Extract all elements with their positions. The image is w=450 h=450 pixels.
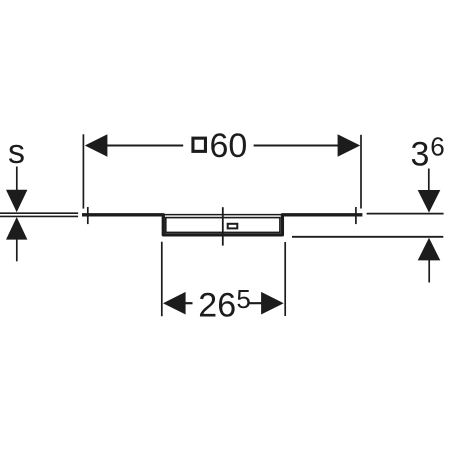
dimension 26.5 left arrow — [163, 292, 186, 315]
dimension 60 right arrow — [338, 134, 361, 157]
square symbol of dimension 60 — [193, 138, 206, 151]
s dimension lower leader line — [16, 239, 18, 261]
svg-text:3: 3 — [411, 136, 430, 174]
grate top surface line — [164, 214, 283, 216]
extension line left of dimension 26.5 — [161, 242, 163, 317]
svg-text:5: 5 — [236, 284, 250, 314]
floor plate top line — [0, 212, 78, 214]
grate inner rectangle — [166, 218, 280, 233]
svg-text:s: s — [8, 133, 25, 171]
svg-text:26: 26 — [198, 287, 236, 325]
extension line right of dimension 26.5 — [284, 242, 286, 316]
svg-text:60: 60 — [210, 127, 248, 165]
dimension 3.6 down arrow — [418, 190, 441, 213]
floor plate bottom line — [0, 215, 78, 217]
dimension line 60 right segment — [254, 145, 345, 147]
outlet slot — [228, 224, 238, 229]
svg-text:6: 6 — [430, 132, 444, 162]
dimension 3.6 lower leader line — [428, 260, 430, 283]
dimension line 26.5 right segment — [249, 302, 267, 304]
s dimension upper leader line — [16, 167, 18, 191]
dimension 60 left arrow — [85, 134, 108, 157]
dimension 3.6 upper leader line — [428, 169, 430, 192]
extension line left of dimension 60 — [82, 134, 84, 208]
dimension line 60 left segment — [100, 145, 183, 147]
top reference line of dimension 3.6 — [367, 213, 444, 215]
left tick on profile — [87, 207, 89, 224]
s dimension up arrow — [6, 217, 27, 240]
center line — [222, 207, 224, 245]
channel profile outline — [82, 215, 362, 235]
dimension 3.6 up arrow — [418, 238, 441, 261]
dimension 26.5 right arrow — [261, 292, 284, 315]
s dimension down arrow — [6, 190, 27, 213]
extension line right of dimension 60 — [360, 135, 362, 209]
bottom reference line of dimension 3.6 — [292, 236, 443, 238]
dimension line 26.5 left segment — [180, 302, 193, 304]
right tick on profile — [355, 207, 357, 224]
